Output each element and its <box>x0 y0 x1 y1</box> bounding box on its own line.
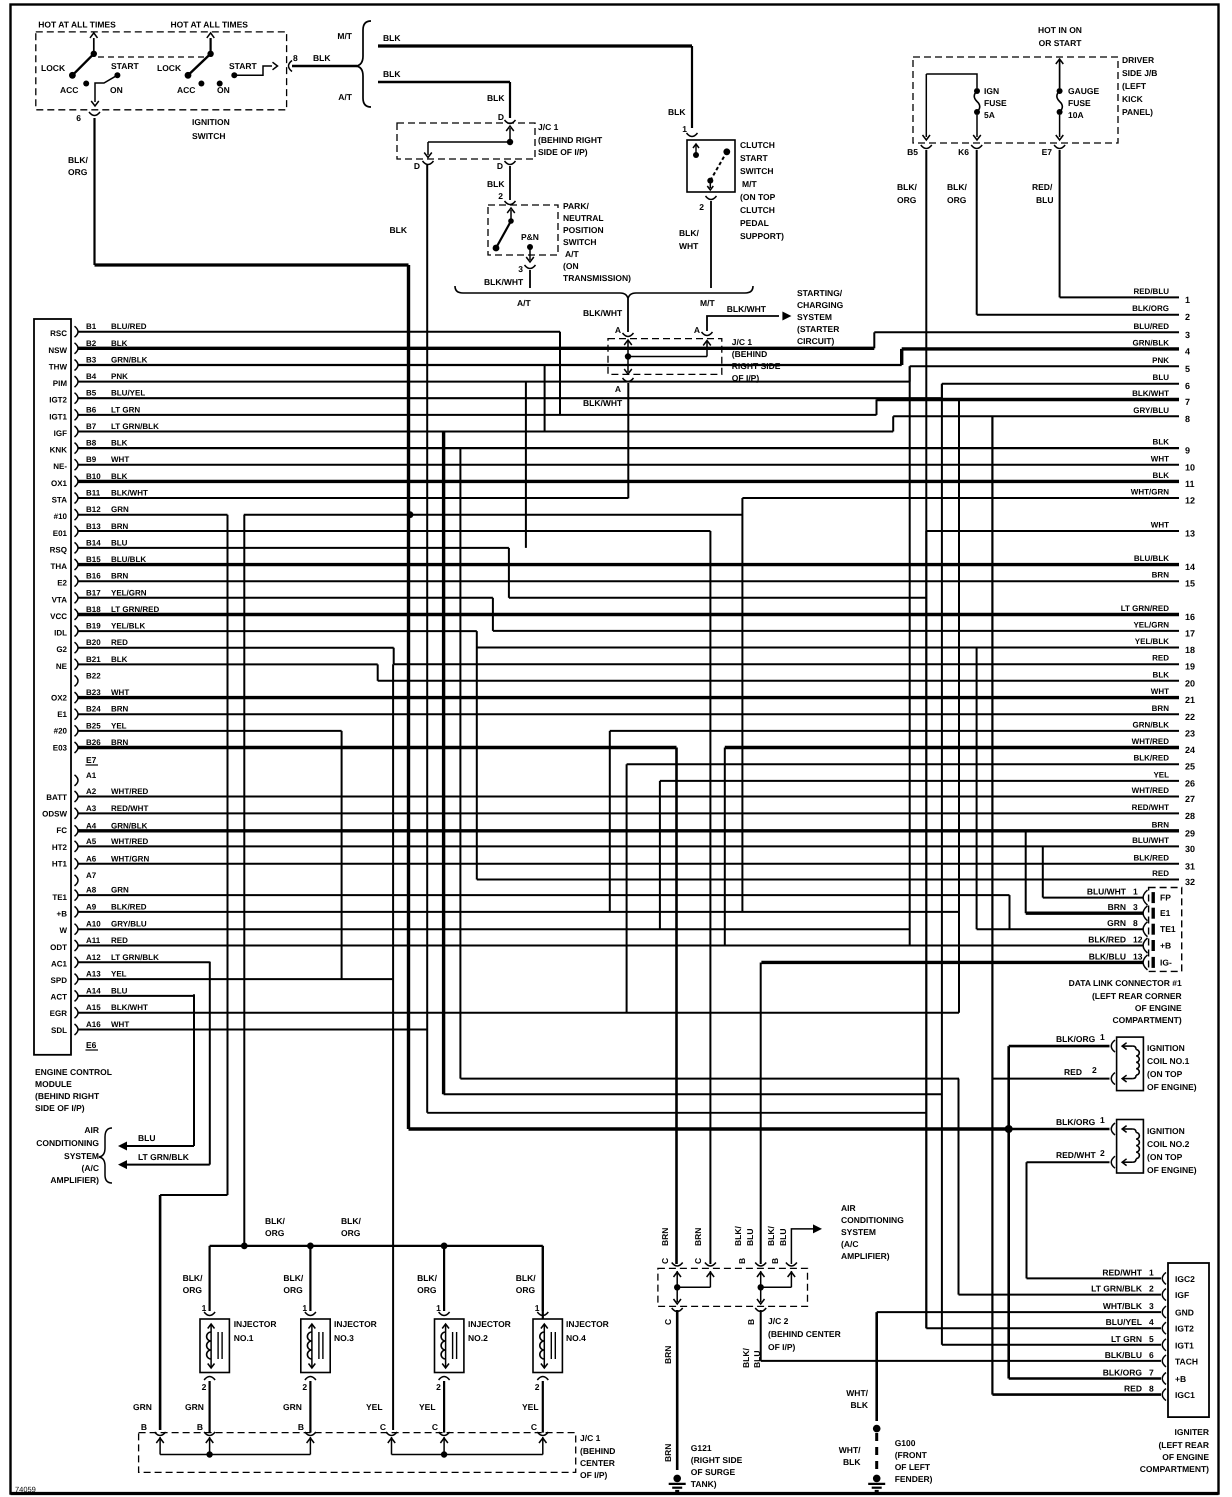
J/C2 internal line 1 <box>677 1286 710 1288</box>
svg-text:A7: A7 <box>86 871 97 880</box>
svg-text:TE1: TE1 <box>52 893 67 902</box>
svg-text:BLK/: BLK/ <box>516 1273 536 1283</box>
connector D bracket left <box>423 161 434 165</box>
ignition switch 2 ACC contact <box>198 81 204 87</box>
wire A13 YEL row <box>78 978 393 980</box>
svg-text:14: 14 <box>1185 562 1195 572</box>
svg-text:B26: B26 <box>86 738 101 747</box>
svg-text:RED/WHT: RED/WHT <box>1056 1150 1096 1160</box>
svg-text:WHT/GRN: WHT/GRN <box>1131 488 1169 497</box>
ignition switch 1 ACC contact <box>83 81 89 87</box>
svg-text:2: 2 <box>202 1382 207 1392</box>
svg-text:IGT1: IGT1 <box>49 412 67 421</box>
svg-text:BRN: BRN <box>663 1444 673 1462</box>
svg-text:G100: G100 <box>895 1438 916 1448</box>
wire LT GRN/BLK to A/C <box>126 1164 210 1166</box>
svg-text:YEL: YEL <box>366 1402 383 1412</box>
park/neutral position switch box <box>488 205 558 255</box>
svg-text:KICK: KICK <box>1122 94 1144 104</box>
svg-text:BLK: BLK <box>487 93 505 103</box>
svg-text:COMPARTMENT): COMPARTMENT) <box>1112 1015 1181 1025</box>
wire E1 BRN <box>1026 912 1143 915</box>
svg-text:LT GRN/BLK: LT GRN/BLK <box>1091 1284 1143 1294</box>
svg-text:BLK: BLK <box>1153 471 1170 480</box>
svg-text:RED: RED <box>1124 1384 1142 1394</box>
svg-text:E6: E6 <box>86 1040 97 1050</box>
svg-text:RED: RED <box>111 638 128 647</box>
svg-text:YEL/BLK: YEL/BLK <box>111 622 145 631</box>
wire B10/row11 BLK <box>78 480 1179 483</box>
svg-text:COMPARTMENT): COMPARTMENT) <box>1140 1464 1209 1474</box>
A/C system brace <box>99 1128 112 1183</box>
svg-text:IGF: IGF <box>54 429 67 438</box>
injector no.3 <box>309 1246 311 1311</box>
svg-text:SWITCH: SWITCH <box>192 131 226 141</box>
svg-text:2: 2 <box>498 191 503 201</box>
svg-text:SWITCH: SWITCH <box>563 237 597 247</box>
svg-text:RED: RED <box>1064 1067 1082 1077</box>
svg-text:E01: E01 <box>53 529 68 538</box>
svg-text:IGT2: IGT2 <box>49 396 67 405</box>
brace A/T M/T merge <box>455 286 753 299</box>
svg-text:NO.4: NO.4 <box>566 1333 586 1343</box>
branch B4 down to B14 row <box>525 382 527 548</box>
svg-text:ENGINE CONTROL: ENGINE CONTROL <box>35 1067 112 1077</box>
connector A bracket right-top <box>702 332 713 336</box>
svg-text:STA: STA <box>52 496 68 505</box>
svg-text:ORG: ORG <box>68 167 88 177</box>
svg-text:B14: B14 <box>86 538 101 547</box>
svg-text:A/T: A/T <box>565 249 580 259</box>
svg-text:D: D <box>498 112 504 122</box>
svg-text:BRN: BRN <box>111 522 129 531</box>
wire B14 BLU row <box>78 547 509 549</box>
svg-text:FUSE: FUSE <box>984 98 1007 108</box>
ignition switch 2 pivot <box>207 51 213 57</box>
svg-text:IGNITION: IGNITION <box>1147 1043 1185 1053</box>
ignition switch 1 pivot <box>91 51 97 57</box>
jog B2 to row3 <box>873 332 875 348</box>
wire B13 BRN row <box>78 530 710 532</box>
wire B7 LT GRN/BLK row <box>78 431 893 433</box>
svg-text:(ON TOP: (ON TOP <box>740 192 776 202</box>
svg-text:ORG: ORG <box>947 195 967 205</box>
connector 2 bracket clutch <box>706 196 717 200</box>
svg-text:BLU/WHT: BLU/WHT <box>1087 887 1127 897</box>
wire GND WHT/BLK row <box>877 1311 1161 1313</box>
svg-text:C: C <box>693 1258 703 1264</box>
labels GRN YEL injector returns <box>133 1402 539 1412</box>
svg-text:OF ENGINE: OF ENGINE <box>1162 1452 1209 1462</box>
svg-text:B9: B9 <box>86 455 97 464</box>
svg-text:BLU/YEL: BLU/YEL <box>1106 1317 1142 1327</box>
svg-text:WHT/RED: WHT/RED <box>1132 737 1170 746</box>
svg-text:LT GRN/BLK: LT GRN/BLK <box>111 422 159 431</box>
J/C2 internal line 2 <box>761 1286 792 1288</box>
svg-text:SYSTEM: SYSTEM <box>797 312 832 322</box>
wire B19 YEL/BLK row <box>78 630 477 632</box>
svg-text:BLU/BLK: BLU/BLK <box>111 555 146 564</box>
wire right row 25 BLK/RED <box>627 763 1179 765</box>
P/N exit arrow <box>529 247 531 260</box>
svg-text:IGN: IGN <box>984 86 999 96</box>
ignition switch 2 START wire <box>234 66 272 75</box>
svg-text:NSW: NSW <box>48 346 67 355</box>
svg-text:3: 3 <box>518 264 523 274</box>
svg-text:BLK: BLK <box>111 439 128 448</box>
svg-text:SYSTEM: SYSTEM <box>841 1227 876 1237</box>
svg-text:B15: B15 <box>86 555 101 564</box>
wire IGT2 BLU/YEL row <box>926 1327 1161 1329</box>
wire A2/row27 WHT/RED <box>78 796 1179 798</box>
svg-text:30: 30 <box>1185 844 1195 854</box>
svg-text:(BEHIND: (BEHIND <box>732 349 767 359</box>
svg-text:NO.2: NO.2 <box>468 1333 488 1343</box>
connector 8 bracket <box>289 61 293 72</box>
svg-text:FC: FC <box>56 826 67 835</box>
svg-text:A: A <box>615 325 621 335</box>
svg-text:IGT2: IGT2 <box>1175 1324 1194 1334</box>
wire IGC2 RED/WHT row <box>1027 1277 1162 1279</box>
svg-text:PNK: PNK <box>111 372 128 381</box>
ignition switch inner dashed line <box>98 56 205 58</box>
wire WHT/BLK G100 drop <box>875 1312 878 1421</box>
data link connector dashed box <box>1149 888 1182 972</box>
svg-text:25: 25 <box>1185 762 1195 772</box>
wire vertical x926 to IGT2 <box>925 531 927 1328</box>
data link connector pins <box>1087 887 1176 970</box>
wire A5/row30 WHT/RED BLU/WHT <box>78 845 1179 847</box>
GAUGE fuse 10A <box>1057 88 1063 94</box>
svg-text:BLK/: BLK/ <box>947 182 967 192</box>
svg-text:E1: E1 <box>57 710 67 719</box>
svg-text:WHT/RED: WHT/RED <box>111 787 149 796</box>
svg-text:1: 1 <box>1100 1115 1105 1125</box>
connector A bracket in <box>623 333 634 337</box>
svg-text:8: 8 <box>293 53 298 63</box>
J/C2 exit arrow 1 <box>676 1287 678 1302</box>
wire vertical x443 <box>442 432 445 1095</box>
svg-text:WHT/RED: WHT/RED <box>1132 786 1170 795</box>
wire right row 17 YEL/GRN <box>493 630 1179 632</box>
svg-text:B4: B4 <box>86 372 97 381</box>
junction bus x310 <box>307 1243 314 1250</box>
wire B9/row10 WHT <box>78 464 1179 466</box>
svg-text:4: 4 <box>1185 346 1190 356</box>
J/C1 internal branch <box>428 141 510 143</box>
wire BLK clutch drop <box>691 46 693 128</box>
svg-text:B17: B17 <box>86 588 101 597</box>
svg-text:YEL/GRN: YEL/GRN <box>111 588 147 597</box>
svg-text:32: 32 <box>1185 877 1195 887</box>
wire BLK/WHT brace to J/C1 <box>627 299 629 332</box>
svg-text:BLK: BLK <box>111 655 128 664</box>
coil1 pin2 bracket <box>1111 1073 1115 1085</box>
svg-text:SIDE OF I/P): SIDE OF I/P) <box>538 147 588 157</box>
svg-text:IDL: IDL <box>54 629 67 638</box>
svg-text:GND: GND <box>1175 1308 1194 1318</box>
svg-text:1: 1 <box>302 1303 307 1313</box>
svg-text:12: 12 <box>1133 935 1143 945</box>
wire DLC IG- BLK/BLU row <box>761 961 1143 964</box>
svg-text:LOCK: LOCK <box>41 63 66 73</box>
svg-text:6: 6 <box>1185 381 1190 391</box>
svg-text:5: 5 <box>1185 364 1190 374</box>
svg-text:B12: B12 <box>86 505 101 514</box>
svg-text:CLUTCH: CLUTCH <box>740 205 775 215</box>
svg-text:(STARTER: (STARTER <box>797 324 839 334</box>
svg-text:28: 28 <box>1185 811 1195 821</box>
svg-text:YEL: YEL <box>419 1402 436 1412</box>
wire BLK to brace <box>292 65 357 68</box>
wire vertical x992 to IGC1 <box>991 416 993 1394</box>
svg-text:J/C 1: J/C 1 <box>538 122 559 132</box>
svg-text:GRN: GRN <box>111 886 129 895</box>
svg-text:LT GRN/BLK: LT GRN/BLK <box>138 1152 190 1162</box>
J/C1 left exit arrow <box>427 142 429 155</box>
svg-text:ORG: ORG <box>516 1285 536 1295</box>
svg-text:+B: +B <box>1175 1374 1186 1384</box>
wire A6/row31 WHT/GRN BLK/RED <box>78 863 1179 865</box>
svg-text:B25: B25 <box>86 721 101 730</box>
svg-text:BLK/BLU: BLK/BLU <box>1105 1350 1142 1360</box>
svg-text:BLK/: BLK/ <box>417 1273 437 1283</box>
svg-text:(LEFT REAR CORNER: (LEFT REAR CORNER <box>1092 991 1182 1001</box>
connector K6 bracket <box>971 145 982 149</box>
svg-text:BLU/WHT: BLU/WHT <box>1132 836 1169 845</box>
wire B26 BRN row <box>78 746 677 749</box>
svg-text:B1: B1 <box>86 322 97 331</box>
svg-text:ACC: ACC <box>177 85 195 95</box>
wire right row 3 BLU/RED <box>874 331 1179 333</box>
svg-text:BLK/ORG: BLK/ORG <box>1056 1117 1096 1127</box>
svg-text:16: 16 <box>1185 612 1195 622</box>
wire B11 BLK/WHT row <box>78 497 628 499</box>
jog B20 down <box>393 648 395 665</box>
svg-text:(A/C: (A/C <box>841 1239 858 1249</box>
svg-text:(A/C: (A/C <box>82 1163 99 1173</box>
svg-text:OF ENGINE): OF ENGINE) <box>1147 1082 1197 1092</box>
wire GRN to injector JC <box>159 1195 162 1430</box>
svg-text:4: 4 <box>1149 1317 1154 1327</box>
svg-text:M/T: M/T <box>742 179 757 189</box>
wire right row 7 BLK/WHT <box>877 398 1180 401</box>
jog B14 down <box>508 548 510 598</box>
wire right row 26 YEL <box>660 780 1179 782</box>
svg-text:#10: #10 <box>54 512 68 521</box>
wire A12 vertical to A/C <box>209 962 211 1165</box>
svg-text:BLU: BLU <box>1153 373 1170 382</box>
svg-text:IGF: IGF <box>1175 1290 1189 1300</box>
svg-text:21: 21 <box>1185 695 1195 705</box>
wire coil1 BLK/ORG row <box>1009 1045 1110 1048</box>
svg-text:#20: #20 <box>54 727 68 736</box>
wire vertical x958 to IGF <box>958 1079 960 1295</box>
svg-text:INJECTOR: INJECTOR <box>468 1319 511 1329</box>
svg-text:(LEFT REAR: (LEFT REAR <box>1158 1440 1209 1450</box>
wire A10 GRY/BLU row <box>78 928 910 930</box>
svg-text:BLK/ORG: BLK/ORG <box>1132 304 1169 313</box>
svg-text:TANK): TANK) <box>691 1479 717 1489</box>
svg-text:RED: RED <box>1152 654 1169 663</box>
svg-text:BLK/: BLK/ <box>68 155 88 165</box>
svg-text:NO.3: NO.3 <box>334 1333 354 1343</box>
svg-text:(BEHIND RIGHT: (BEHIND RIGHT <box>35 1091 100 1101</box>
wire B5 BLK/ORG down <box>925 150 927 1328</box>
coil1 pin1 bracket <box>1111 1040 1115 1052</box>
svg-text:(FRONT: (FRONT <box>895 1450 928 1460</box>
svg-text:BLK: BLK <box>1153 670 1170 679</box>
junction connector J/C 1 mid box <box>608 339 722 375</box>
wire BLK/WHT to starter arrow <box>707 316 779 331</box>
svg-text:E7: E7 <box>86 755 97 765</box>
svg-text:BLU: BLU <box>111 986 128 995</box>
svg-text:YEL: YEL <box>1153 770 1169 779</box>
svg-text:6: 6 <box>76 113 81 123</box>
svg-text:BLU/YEL: BLU/YEL <box>111 389 145 398</box>
svg-text:7: 7 <box>1149 1368 1154 1378</box>
svg-text:WHT/GRN: WHT/GRN <box>111 854 149 863</box>
svg-text:BLK/: BLK/ <box>183 1273 203 1283</box>
svg-text:IGC2: IGC2 <box>1175 1274 1195 1284</box>
svg-text:YEL: YEL <box>111 721 127 730</box>
svg-text:START: START <box>740 153 769 163</box>
coil2 pin1 bracket <box>1111 1123 1115 1135</box>
IGN fuse 5A <box>974 88 980 94</box>
wire right row 23 GRN/BLK <box>610 730 1179 732</box>
wire C-line vertical x393 <box>392 664 394 1430</box>
svg-text:11: 11 <box>1185 479 1195 489</box>
svg-text:1: 1 <box>535 1303 540 1313</box>
svg-text:INJECTOR: INJECTOR <box>566 1319 609 1329</box>
wire WHT/BLK dashed <box>875 1433 878 1472</box>
brace M/T A/T split <box>356 21 371 107</box>
svg-text:M/T: M/T <box>700 298 715 308</box>
svg-text:31: 31 <box>1185 861 1195 871</box>
svg-text:WHT: WHT <box>679 241 699 251</box>
svg-text:A/T: A/T <box>517 298 532 308</box>
svg-text:IGC1: IGC1 <box>1175 1390 1195 1400</box>
J/C1 mid entry arrow <box>627 341 629 356</box>
svg-text:B: B <box>197 1422 203 1432</box>
svg-text:3: 3 <box>1133 902 1138 912</box>
svg-text:THA: THA <box>51 562 68 571</box>
svg-text:A3: A3 <box>86 804 97 813</box>
injector no.4 <box>542 1246 544 1311</box>
svg-text:CLUTCH: CLUTCH <box>740 140 775 150</box>
J/C1 bottom internal line B <box>160 1454 310 1456</box>
jog B1 down to B6 row <box>559 332 561 415</box>
J/C1 bottom internal line C <box>392 1454 543 1456</box>
clutch switch arm <box>710 152 727 181</box>
ignition switch dashed box <box>36 32 287 110</box>
wire A15 BLK/WHT row <box>78 1012 959 1014</box>
svg-text:GRN/BLK: GRN/BLK <box>111 821 148 830</box>
svg-text:LT GRN/RED: LT GRN/RED <box>111 605 160 614</box>
wire BLK/WHT below P/N <box>529 270 531 288</box>
wire right row 20 BLK <box>378 680 1179 682</box>
wire BLK J/C1-D vertical <box>426 165 428 1113</box>
wire BRN B26 vertical to J/C2 <box>675 748 678 1265</box>
svg-text:B19: B19 <box>86 622 101 631</box>
svg-text:WHT/: WHT/ <box>839 1445 861 1455</box>
svg-text:8: 8 <box>1185 414 1190 424</box>
junction bus x244 <box>241 1243 248 1250</box>
svg-text:FP: FP <box>1160 893 1171 903</box>
clutch switch exit arrow <box>709 181 711 188</box>
svg-text:A10: A10 <box>86 920 101 929</box>
wire A3/row28 RED/WHT <box>78 812 1179 814</box>
clutch switch arrow up <box>695 145 697 155</box>
svg-text:ACT: ACT <box>51 993 68 1002</box>
driver side J/B dashed box <box>913 57 1118 143</box>
svg-text:THW: THW <box>49 363 68 372</box>
wire BLK/WHT J/C1 down <box>627 383 629 498</box>
svg-text:BLK/: BLK/ <box>897 182 917 192</box>
svg-text:(ON TOP: (ON TOP <box>1147 1069 1183 1079</box>
svg-text:G2: G2 <box>56 645 67 654</box>
igniter pins <box>1091 1267 1198 1400</box>
svg-text:1: 1 <box>1149 1267 1154 1277</box>
svg-text:HOT AT ALL TIMES: HOT AT ALL TIMES <box>171 20 249 30</box>
svg-text:WHT: WHT <box>1151 454 1169 463</box>
J/C2 exit labels <box>663 1308 766 1462</box>
junction bus x444 <box>441 1243 448 1250</box>
svg-text:RSC: RSC <box>50 329 67 338</box>
J/C2 node 2 <box>758 1284 764 1290</box>
wire B1 BLU/RED row <box>78 331 560 333</box>
J/B feed arrow <box>1059 60 1061 88</box>
svg-text:BLK: BLK <box>851 1400 869 1410</box>
svg-text:MODULE: MODULE <box>35 1079 72 1089</box>
clutch start switch box <box>687 140 735 192</box>
ground G100 <box>873 1475 881 1483</box>
svg-text:GRN: GRN <box>111 505 129 514</box>
connector E7 bracket <box>1054 145 1065 149</box>
wire row x427 to IGT2 <box>427 1112 926 1114</box>
svg-text:BLK/: BLK/ <box>679 228 699 238</box>
wire row29 to E1 vertical <box>1025 831 1027 913</box>
svg-text:BLK/: BLK/ <box>265 1216 285 1226</box>
svg-text:ODSW: ODSW <box>42 810 67 819</box>
wire vertical x460 <box>459 448 461 1079</box>
wire A12 LT GRN/BLK row <box>78 961 210 963</box>
svg-text:LT GRN/BLK: LT GRN/BLK <box>111 953 159 962</box>
svg-text:A4: A4 <box>86 821 97 830</box>
branch B3 down to B7 row <box>544 365 546 432</box>
svg-text:BLU: BLU <box>1036 195 1053 205</box>
svg-text:G121: G121 <box>691 1443 712 1453</box>
P/N contact dot <box>527 244 533 250</box>
wire right row 19 RED <box>394 663 1179 665</box>
wire BLK/ORG row to coils <box>409 1127 1009 1130</box>
svg-text:A8: A8 <box>86 886 97 895</box>
J/C1 internal arrow up <box>509 128 511 144</box>
svg-text:1: 1 <box>1133 887 1138 897</box>
svg-text:B5: B5 <box>86 389 97 398</box>
svg-text:29: 29 <box>1185 828 1195 838</box>
svg-text:CONDITIONING: CONDITIONING <box>36 1138 99 1148</box>
svg-text:B11: B11 <box>86 489 101 498</box>
svg-text:SIDE OF I/P): SIDE OF I/P) <box>35 1103 85 1113</box>
svg-text:2: 2 <box>1092 1065 1097 1075</box>
ignition coil no.2 <box>1117 1120 1144 1174</box>
wire B14 continuation <box>509 597 926 599</box>
svg-text:B24: B24 <box>86 705 101 714</box>
J/C2 node 1 <box>674 1284 680 1290</box>
svg-text:(ON: (ON <box>563 261 579 271</box>
ignition switch 2 ON contact <box>217 81 223 87</box>
